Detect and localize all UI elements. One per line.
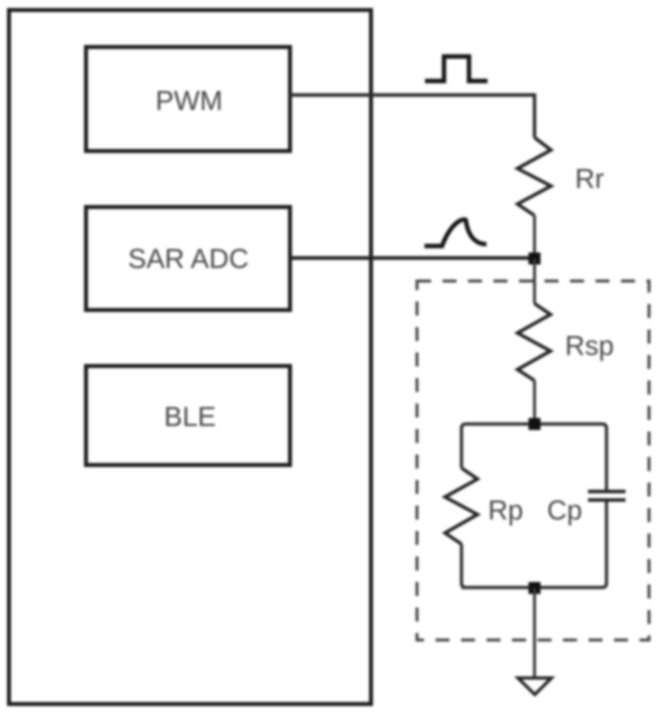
dashed sensor probe boundary <box>417 281 649 640</box>
node C junction dot (bottom of RC) <box>529 582 541 594</box>
wire SAR ADC output to node A <box>290 256 535 260</box>
wire node C to ground <box>533 588 536 678</box>
svg-text:Cp: Cp <box>547 495 582 526</box>
wire Rsp bottom to node B <box>533 381 536 425</box>
wire Rr bottom to node A <box>533 216 536 260</box>
resistor Rr <box>518 138 552 216</box>
exponential waveform symbol <box>425 220 487 247</box>
parallel RC loop wires <box>462 424 607 588</box>
node B junction dot (top of RC) <box>529 418 541 430</box>
svg-text:Rp: Rp <box>488 495 523 526</box>
wire PWM output to Rr top <box>290 95 535 138</box>
MCU enclosure box <box>9 10 371 704</box>
svg-text:BLE: BLE <box>164 401 216 432</box>
PWM block <box>86 47 290 151</box>
resistor Rp <box>445 468 478 544</box>
capacitor Cp <box>588 492 626 501</box>
resistor Rsp <box>518 304 551 381</box>
node A junction dot <box>529 253 541 265</box>
svg-text:Rsp: Rsp <box>565 330 614 361</box>
svg-text:PWM: PWM <box>156 85 223 116</box>
ground symbol <box>518 678 552 695</box>
SAR ADC block <box>86 207 290 310</box>
svg-text:SAR ADC: SAR ADC <box>128 243 249 274</box>
BLE block <box>86 366 290 465</box>
pulse waveform symbol <box>425 57 488 82</box>
wire node A to Rsp top <box>533 259 536 304</box>
svg-text:Rr: Rr <box>575 163 604 194</box>
